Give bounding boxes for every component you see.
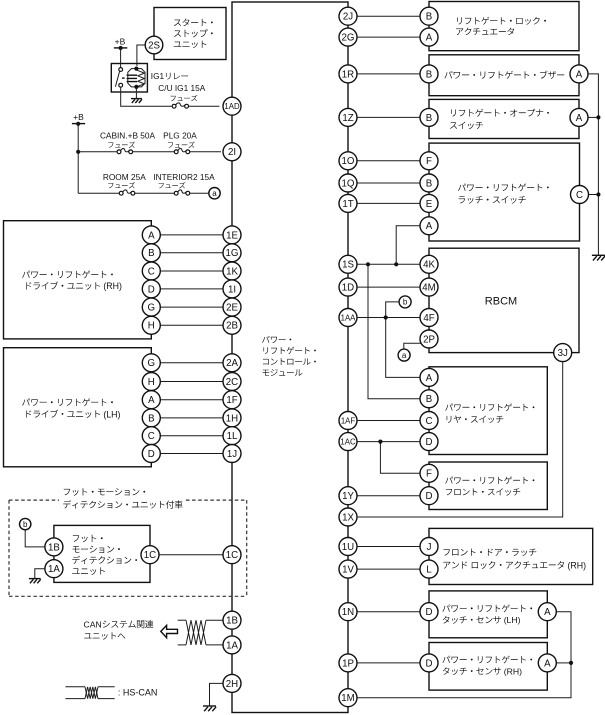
power feed +B (cabin) <box>72 112 85 126</box>
wire module to component at y=264.3 <box>357 263 420 265</box>
pin B <box>420 174 438 192</box>
wire module to component at y=160.8 <box>357 160 420 162</box>
svg-text:b: b <box>23 520 28 529</box>
label power liftgate rear switch box <box>445 403 534 423</box>
connector 2H (module left) <box>223 674 241 692</box>
svg-text:B: B <box>426 69 432 80</box>
power liftgate front switch box <box>429 462 547 510</box>
label CABIN.+B 50A fuse <box>100 131 156 148</box>
svg-text:1C: 1C <box>144 550 156 561</box>
connector 2G (module right) <box>339 28 357 46</box>
relay coil <box>127 67 145 90</box>
front door latch and lock actuator box <box>429 528 593 584</box>
svg-text:3J: 3J <box>558 348 568 359</box>
connector 1R (module right) <box>339 65 357 83</box>
pin B <box>420 390 438 408</box>
label drive unit LH <box>22 398 120 419</box>
connector 1H (module left) <box>223 409 241 427</box>
svg-text:2G: 2G <box>342 33 355 44</box>
wire module to component at y=662.9 <box>357 662 420 664</box>
svg-text:ROOM 25A: ROOM 25A <box>103 172 146 182</box>
ground (right bus) <box>592 255 605 260</box>
pin 4M <box>420 278 438 296</box>
svg-text:D: D <box>426 607 433 618</box>
svg-text:1P: 1P <box>342 658 354 669</box>
svg-text:C: C <box>148 431 155 442</box>
label foot motion detection unit equipped vehicles <box>63 488 183 508</box>
liftgate lock actuator box <box>429 2 579 51</box>
svg-text:1C: 1C <box>226 550 238 561</box>
connector 2I (module left) <box>223 143 241 161</box>
svg-text:G: G <box>148 303 156 314</box>
wire module to component at y=317.5 <box>357 317 420 319</box>
svg-text:2E: 2E <box>226 303 238 314</box>
pin G (drive unit LH) <box>142 354 160 372</box>
label HS-CAN <box>118 687 158 697</box>
power liftgate latch switch box <box>429 143 580 241</box>
power liftgate rear switch box <box>429 367 547 455</box>
pin B (drive unit LH) <box>142 409 160 427</box>
pin D (drive unit LH) <box>142 445 160 463</box>
wire module to component at y=546.5 <box>357 546 420 548</box>
wire touch sensors A bus to 1M <box>357 612 571 698</box>
wire drive RH pin G to module 2E <box>160 306 223 308</box>
label power liftgate latch switch box <box>458 183 549 203</box>
pin D <box>420 603 438 621</box>
pin F <box>420 152 438 170</box>
fuse C/U IG1 15A <box>172 103 188 108</box>
wire drive LH pin A to module 1F <box>160 399 223 401</box>
svg-text:(LH): (LH) <box>103 409 120 419</box>
svg-text:1D: 1D <box>342 283 354 294</box>
label power liftgate control module <box>262 336 316 376</box>
foot motion detection unit box <box>54 525 150 582</box>
fuse CABIN.+B 50A <box>117 149 133 154</box>
connector 1G (module left) <box>223 244 241 262</box>
svg-text:IG1: IG1 <box>151 72 165 81</box>
wire 2S to relay coil <box>137 45 145 66</box>
pin H (drive unit LH) <box>142 373 160 391</box>
pin B <box>420 65 438 83</box>
ground (2H) <box>203 706 216 711</box>
svg-text:A: A <box>426 221 433 232</box>
connector 1I (module left) <box>223 280 241 298</box>
connector 1Y (module right) <box>339 487 357 505</box>
label start stop unit <box>174 19 213 49</box>
connector b (foot) <box>20 518 31 529</box>
svg-text:1J: 1J <box>227 449 237 460</box>
svg-text:A: A <box>576 113 583 124</box>
pin 1C (foot unit) <box>141 546 159 564</box>
label drive unit RH <box>22 270 122 291</box>
wire drive LH pin D to module 1J <box>160 453 223 455</box>
svg-text:1AF: 1AF <box>341 416 356 425</box>
svg-text:a: a <box>402 351 407 360</box>
label PLG 20A fuse <box>163 131 197 148</box>
pin C (drive unit LH) <box>142 427 160 445</box>
svg-text:1Z: 1Z <box>342 113 353 124</box>
arrow to CAN system <box>161 625 178 637</box>
ground (foot unit 1A) <box>29 579 41 584</box>
label power liftgate buzzer box <box>444 71 564 79</box>
connector 1U (module right) <box>339 538 357 556</box>
wire a to 2P <box>404 343 422 349</box>
svg-text:2C: 2C <box>226 377 238 388</box>
svg-text:1T: 1T <box>342 199 353 210</box>
svg-text:A: A <box>576 69 583 80</box>
svg-text:1S: 1S <box>342 260 354 271</box>
svg-text:(RH): (RH) <box>504 666 522 676</box>
pin D (drive unit RH) <box>142 280 160 298</box>
svg-text:CABIN.+B 50A: CABIN.+B 50A <box>100 131 156 141</box>
pin A <box>538 603 556 621</box>
pin F <box>420 464 438 482</box>
pin A <box>420 368 438 386</box>
svg-text:2S: 2S <box>148 40 160 51</box>
svg-text:A: A <box>148 230 155 241</box>
svg-text:1Y: 1Y <box>342 491 354 502</box>
pin 4F <box>420 309 438 327</box>
fuse PLG 20A <box>174 149 189 154</box>
label front door latch and lock actuator box <box>443 549 586 571</box>
liftgate opener switch box <box>429 99 579 138</box>
svg-text:B: B <box>148 413 154 424</box>
label liftgate lock actuator box <box>456 17 546 35</box>
wire relay coil to ground <box>135 87 137 99</box>
svg-text:1V: 1V <box>342 565 354 576</box>
wire module to component at y=287.1 <box>357 286 420 288</box>
svg-text:1N: 1N <box>342 607 354 618</box>
pin J <box>420 538 438 556</box>
connector 1P (module right) <box>339 654 357 672</box>
ground (relay coil) <box>131 99 142 103</box>
pin A <box>538 654 556 672</box>
pin C <box>420 412 438 430</box>
svg-text:1AD: 1AD <box>224 102 240 111</box>
wire fuse row CABIN/PLG to 2I <box>78 151 221 153</box>
connector 1X (module right) <box>339 508 357 526</box>
svg-text:D: D <box>426 437 433 448</box>
pin B <box>420 7 438 25</box>
svg-text:RBCM: RBCM <box>485 296 517 308</box>
CAN twisted pair wires <box>178 620 223 645</box>
connector 1A (module left) <box>223 636 241 654</box>
connector 1D (module right) <box>339 278 357 296</box>
legend HS-CAN twisted pair symbol <box>65 687 114 699</box>
connector 1T (module right) <box>339 194 357 212</box>
svg-text:J: J <box>427 542 432 553</box>
svg-text:D: D <box>426 658 433 669</box>
svg-text:L: L <box>426 565 432 576</box>
svg-text:1M: 1M <box>341 693 354 704</box>
wire foot unit 1A to ground <box>35 569 45 579</box>
power liftgate drive unit RH box <box>4 221 152 339</box>
svg-text:1F: 1F <box>226 395 237 406</box>
connector 2C (module left) <box>223 373 241 391</box>
wire opener A to bus <box>588 115 601 119</box>
pin B <box>420 108 438 126</box>
svg-text:H: H <box>148 377 155 388</box>
svg-text:B: B <box>148 248 154 259</box>
connector a (fuse row) <box>209 188 220 199</box>
wire drive RH pin C to module 1K <box>160 270 223 272</box>
label C/U IG1 15A fuse <box>158 83 206 101</box>
svg-text:1U: 1U <box>342 542 354 553</box>
connector 2B (module left) <box>223 316 241 334</box>
wire drive LH pin C to module 1L <box>160 435 223 437</box>
fuse INTERIOR2 15A <box>174 190 189 195</box>
power liftgate touch sensor LH box <box>429 591 547 638</box>
svg-text:1K: 1K <box>226 266 238 277</box>
svg-text:1H: 1H <box>226 413 238 424</box>
svg-text:INTERIOR2 15A: INTERIOR2 15A <box>153 172 215 182</box>
wire module to component at y=16.2 <box>357 15 420 17</box>
fuse ROOM 25A <box>119 190 135 195</box>
connector 1L (module left) <box>223 427 241 445</box>
pin A <box>420 217 438 235</box>
label RBCM <box>485 296 517 308</box>
svg-text:C/U IG1 15A: C/U IG1 15A <box>158 83 206 93</box>
wire 1S net to rear switch B <box>366 262 420 399</box>
connector 1AC (module right) <box>339 433 357 451</box>
wire module to component at y=611.7 <box>357 611 420 613</box>
wire foot unit 1C to module 1C <box>159 554 223 556</box>
pin A <box>420 28 438 46</box>
relay switch contacts <box>115 68 124 88</box>
svg-text:1X: 1X <box>342 512 354 523</box>
wire drive RH pin H to module 2B <box>160 324 223 326</box>
connector 1E (module left) <box>223 226 241 244</box>
connector 1C (module left) <box>223 546 241 564</box>
connector 1M (module right) <box>339 689 357 707</box>
label power liftgate touch sensor LH box <box>442 604 532 625</box>
wire latch A down to 1S net <box>394 226 420 267</box>
wire module to component at y=569.1 <box>357 568 420 570</box>
connector 1F (module left) <box>223 391 241 409</box>
svg-text:1B: 1B <box>226 616 238 627</box>
svg-text:1I: 1I <box>228 284 236 295</box>
svg-text:a: a <box>212 189 217 198</box>
svg-text:D: D <box>426 491 433 502</box>
svg-text:(RH): (RH) <box>568 560 587 570</box>
svg-text:1AA: 1AA <box>341 313 357 322</box>
pin 4K <box>420 255 438 273</box>
wire +B to relay switch <box>120 48 122 68</box>
svg-text:D: D <box>148 284 155 295</box>
connector a (RBCM) <box>398 349 410 361</box>
connector 1B (module left) <box>223 611 241 629</box>
pin 1A (foot unit) <box>45 560 63 578</box>
wire drive LH pin H to module 2C <box>160 381 223 383</box>
label liftgate opener switch box <box>450 109 549 129</box>
wire 3J to 1X <box>357 362 563 517</box>
svg-text:2A: 2A <box>226 358 238 369</box>
wire module to component at y=183.0 <box>357 182 420 184</box>
svg-text:1B: 1B <box>48 542 60 553</box>
svg-text:CAN: CAN <box>84 620 102 630</box>
connector 2S <box>145 36 163 54</box>
wire +B down with branch <box>76 124 80 193</box>
svg-text:PLG 20A: PLG 20A <box>163 131 197 141</box>
connector 1AD (module left) <box>223 97 241 115</box>
pin A (drive unit LH) <box>142 391 160 409</box>
svg-text:1O: 1O <box>342 156 355 167</box>
wire relay switch to fuse <box>121 87 172 106</box>
connector 2J (module right) <box>339 7 357 25</box>
wire latch C to bus <box>589 192 601 196</box>
svg-text:A: A <box>426 373 433 384</box>
wire fuse row ROOM/INTERIOR2 to connector a <box>78 192 209 194</box>
svg-text:1G: 1G <box>226 248 239 259</box>
svg-text:2J: 2J <box>343 12 353 23</box>
svg-text:1AC: 1AC <box>340 437 356 446</box>
pin H (drive unit RH) <box>142 316 160 334</box>
wire drive RH pin A to module 1E <box>160 234 223 236</box>
svg-text:1E: 1E <box>226 230 238 241</box>
svg-text:1A: 1A <box>226 640 238 651</box>
wire drive RH pin D to module 1I <box>160 288 223 290</box>
label power liftgate front switch box <box>445 476 534 495</box>
pin G (drive unit RH) <box>142 298 160 316</box>
pin 1B (foot unit) <box>45 538 63 556</box>
svg-text:A: A <box>148 395 155 406</box>
svg-text:C: C <box>426 416 433 427</box>
connector 1S (module right) <box>339 255 357 273</box>
svg-text:2H: 2H <box>226 679 238 690</box>
pin E <box>420 194 438 212</box>
svg-text:2I: 2I <box>228 147 236 158</box>
svg-text:+B: +B <box>73 112 84 122</box>
svg-text:4K: 4K <box>423 260 435 271</box>
wire fuse to 1AD <box>189 105 220 107</box>
svg-text:A: A <box>544 607 551 618</box>
power feed +B (IG1 relay) <box>114 36 127 50</box>
wire 1AC net to front switch F <box>378 440 420 474</box>
pin D <box>420 433 438 451</box>
svg-text:A: A <box>426 33 433 44</box>
power liftgate buzzer box <box>429 55 579 96</box>
svg-text:1Q: 1Q <box>342 178 355 189</box>
svg-text:(LH): (LH) <box>504 615 521 625</box>
relay IG1 box <box>111 64 147 93</box>
wire b to foot unit 1B <box>25 530 45 547</box>
power liftgate drive unit LH box <box>4 348 152 467</box>
svg-text:C: C <box>576 190 583 201</box>
connector 2A (module left) <box>223 354 241 372</box>
pin 3J <box>554 344 572 362</box>
svg-text:1R: 1R <box>342 69 354 80</box>
label ROOM 25A fuse <box>103 172 146 188</box>
wire drive LH pin G to module 2A <box>160 362 223 364</box>
svg-text:D: D <box>148 449 155 460</box>
connector 1O (module right) <box>339 152 357 170</box>
svg-text:b: b <box>403 298 408 307</box>
svg-text:B: B <box>426 12 432 23</box>
label power liftgate touch sensor RH box <box>442 656 532 677</box>
wire module to component at y=441.6 <box>357 441 420 443</box>
power liftgate touch sensor RH box <box>429 643 547 691</box>
wire drive LH pin B to module 1H <box>160 417 223 419</box>
wire drive RH pin B to module 1G <box>160 252 223 254</box>
dashed box: with foot motion detection unit <box>9 500 247 596</box>
svg-text:G: G <box>148 358 156 369</box>
label foot motion detection unit <box>72 535 137 575</box>
svg-text:F: F <box>426 156 432 167</box>
connector 1AA (module right) <box>339 309 357 327</box>
power liftgate control module box <box>232 2 348 713</box>
start stop unit box <box>154 8 226 60</box>
svg-text:(RH): (RH) <box>103 281 122 291</box>
wire module to component at y=203.4 <box>357 202 420 204</box>
wire module to component at y=117.4 <box>357 116 420 118</box>
svg-text:F: F <box>426 469 432 480</box>
connector 1AF (module right) <box>339 412 357 430</box>
wire module to component at y=37.1 <box>357 36 420 38</box>
label INTERIOR2 15A fuse <box>153 172 215 188</box>
label to CAN system related units <box>84 620 154 640</box>
svg-text:+B: +B <box>115 36 126 46</box>
svg-text:H: H <box>148 321 155 332</box>
connector 2E (module left) <box>223 298 241 316</box>
connector 1Q (module right) <box>339 174 357 192</box>
pin A <box>570 65 588 83</box>
pin A <box>570 108 588 126</box>
svg-text:2B: 2B <box>226 321 238 332</box>
pin C (drive unit RH) <box>142 262 160 280</box>
pin 2P <box>420 330 438 348</box>
connector b (RBCM) <box>399 296 411 308</box>
connector 1Z (module right) <box>339 108 357 126</box>
svg-text:4F: 4F <box>423 313 434 324</box>
pin D <box>420 654 438 672</box>
connector 1V (module right) <box>339 560 357 578</box>
wire touch RH A spur <box>556 661 573 665</box>
label IG1 relay <box>151 72 188 81</box>
connector 1K (module left) <box>223 262 241 280</box>
svg-text:C: C <box>148 266 155 277</box>
wire module to component at y=495.7 <box>357 495 420 497</box>
connector 1N (module right) <box>339 603 357 621</box>
connector 1J (module left) <box>223 445 241 463</box>
svg-text:4M: 4M <box>422 283 435 294</box>
pin C <box>571 186 589 204</box>
pin A (drive unit RH) <box>142 226 160 244</box>
svg-text:B: B <box>426 178 432 189</box>
pin L <box>420 560 438 578</box>
wire buzzer A to ground bus <box>588 74 598 255</box>
svg-text:2P: 2P <box>423 334 435 345</box>
svg-text:1A: 1A <box>48 564 60 575</box>
svg-text:A: A <box>544 658 551 669</box>
svg-text:: HS-CAN: : HS-CAN <box>118 687 158 697</box>
svg-text:E: E <box>426 199 433 210</box>
svg-text:B: B <box>426 113 432 124</box>
wire module to component at y=420.5 <box>357 420 420 422</box>
pin D <box>420 487 438 505</box>
pin B (drive unit RH) <box>142 244 160 262</box>
RBCM box <box>429 248 579 352</box>
wire b to 1AA net and rear switch A <box>384 302 420 378</box>
svg-text:1L: 1L <box>227 431 238 442</box>
wire module to component at y=73.9 <box>357 73 420 75</box>
svg-text:B: B <box>426 394 432 405</box>
wire module 2H to ground <box>210 683 224 706</box>
